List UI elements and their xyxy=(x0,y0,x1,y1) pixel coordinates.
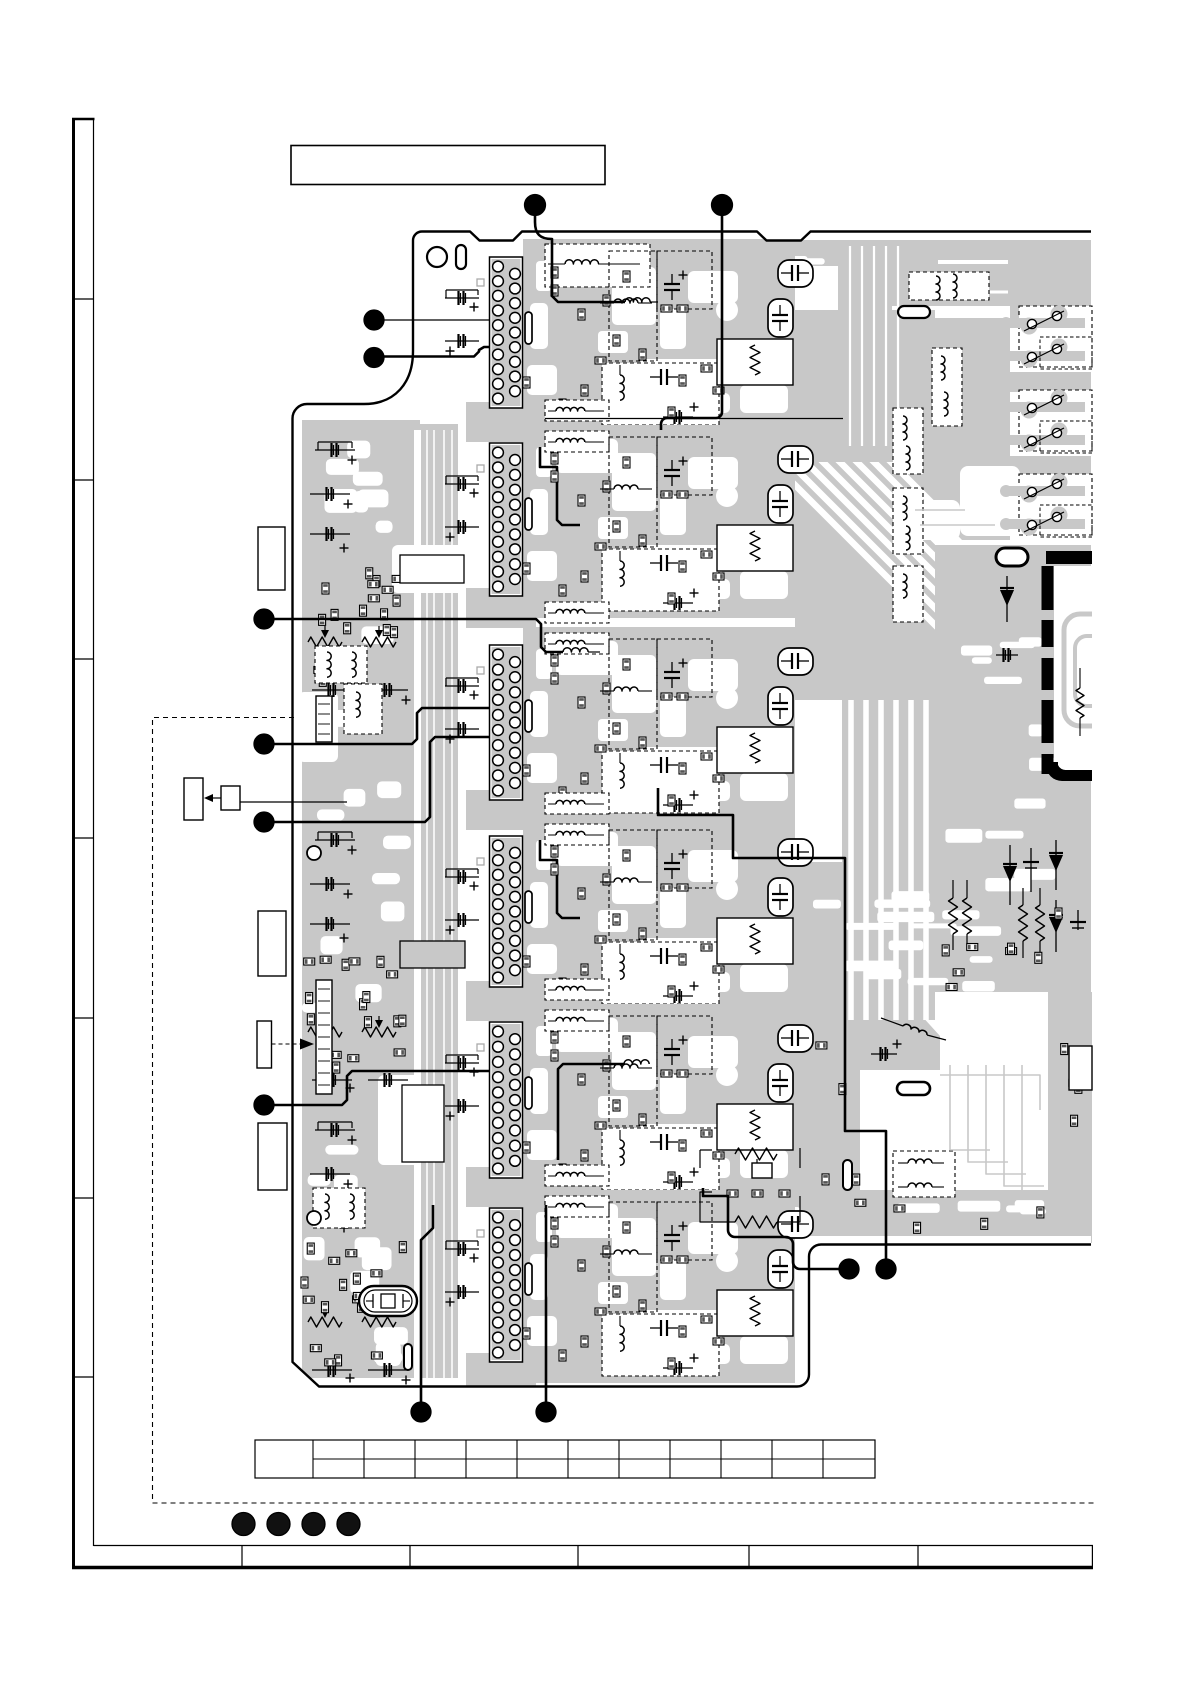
left margin tick 7 xyxy=(74,1376,94,1378)
wire from pad 11 xyxy=(421,1205,433,1403)
left strip electrolytic caps lower y1112 xyxy=(312,1369,352,1371)
capacitor C257e xyxy=(663,416,693,418)
electrolytic capacitor C257b xyxy=(768,299,793,337)
inductor filter box L1208a1 xyxy=(545,1165,609,1186)
shield box y257 xyxy=(609,251,657,361)
module clearance xyxy=(527,1204,788,1364)
inductor box L645b xyxy=(602,751,719,813)
light traces bottom-right white zone xyxy=(915,510,1062,1198)
resistor R-shield xyxy=(1076,688,1084,718)
capacitor C1208f xyxy=(445,1248,479,1250)
capacitor C1022c xyxy=(671,1039,673,1049)
slot bottom-center xyxy=(843,1160,852,1190)
diode D-left-frame xyxy=(1006,576,1008,622)
inductor box L1022b xyxy=(602,1128,719,1190)
shield box y836 b xyxy=(657,830,712,888)
routing slot xyxy=(525,1263,532,1295)
title box xyxy=(291,146,605,185)
callout pad 3 xyxy=(364,310,384,330)
connector CN2 xyxy=(490,443,523,596)
inductor L1022c xyxy=(614,1064,638,1068)
module clearance xyxy=(527,832,788,992)
bottom frame divider 6 xyxy=(1091,1545,1093,1567)
diagonal trace zone xyxy=(795,462,935,700)
header connector left lower xyxy=(316,980,332,1094)
wire from pad 5 xyxy=(273,619,563,652)
electrolytic capacitor C443b xyxy=(768,485,793,523)
capacitor C257d xyxy=(650,376,661,378)
electrolytic capacitor C1022b xyxy=(768,1064,793,1102)
copper pour module y443 xyxy=(466,425,795,628)
legend wire xyxy=(240,801,347,803)
wire hook xyxy=(540,840,580,918)
left strip electrolytic cap y1112 3 xyxy=(310,1213,350,1215)
PCB board outline xyxy=(293,232,1092,1387)
callout pad 10 xyxy=(876,1259,896,1279)
key pad 3 xyxy=(302,1513,325,1536)
wire from pad 8 xyxy=(273,1071,489,1105)
resistor R-right-2b xyxy=(1036,905,1045,941)
IC outline box lower xyxy=(402,1085,444,1162)
connector CN3 xyxy=(490,645,523,800)
capacitor C443e xyxy=(663,602,693,604)
callout dashed arrowhead xyxy=(303,712,318,723)
slot top-right xyxy=(898,306,930,318)
callout pad 2 xyxy=(712,195,733,216)
inductor L645c xyxy=(614,687,638,691)
capacitor C443d xyxy=(650,562,661,564)
electrolytic capacitor C1208b xyxy=(768,1250,793,1288)
bottom frame divider 5 xyxy=(917,1545,919,1567)
capacitor C257c xyxy=(671,274,673,284)
diode D2 xyxy=(1055,840,1057,890)
inductor box right col 2 xyxy=(893,488,923,554)
connector CN6 xyxy=(490,1208,523,1362)
capacitor C1022f xyxy=(445,1062,479,1064)
shield box y1208 b xyxy=(657,1202,712,1260)
wire from pad 10 xyxy=(658,788,886,1259)
left strip trimmer R1112a xyxy=(308,1317,342,1327)
clearance channels xyxy=(296,246,1092,1386)
chip parts bottom-center xyxy=(727,1190,790,1197)
callout pad 4 xyxy=(364,348,384,368)
left strip electrolytic cap y432 1 xyxy=(315,449,355,451)
inductor pair box right-mid xyxy=(932,348,962,426)
trace across modules xyxy=(545,418,843,420)
routing slot xyxy=(525,1077,532,1109)
callout pad 11 xyxy=(411,1402,431,1422)
shield interior traces xyxy=(1064,614,1127,726)
inductor pair box left upper xyxy=(315,646,367,683)
inductor L1208c xyxy=(614,1250,638,1254)
diode D3 xyxy=(1055,900,1057,952)
resistor network box y836 xyxy=(717,918,793,964)
fiducial square xyxy=(477,1230,484,1237)
key pad 4 xyxy=(337,1513,360,1536)
copper pour module y645 xyxy=(466,627,795,830)
bottom frame thin rule xyxy=(94,1545,1094,1547)
diode D1 xyxy=(1009,845,1011,905)
copper pour bottom right bottom strip xyxy=(860,1190,1048,1236)
inductor filter box L443a1 xyxy=(545,400,609,421)
shield box y645 b xyxy=(657,639,712,697)
resistor network box y257 xyxy=(717,339,793,385)
module chip parts xyxy=(523,846,724,997)
inductor filter box L1022a2 xyxy=(545,1010,609,1031)
left strip chip parts xyxy=(301,1242,406,1366)
slot right-bottom xyxy=(897,1082,930,1095)
capacitor C645g xyxy=(445,728,479,730)
module chip parts xyxy=(523,1032,724,1183)
module chip parts xyxy=(523,453,724,604)
key pad 2 xyxy=(267,1513,290,1536)
copper pour bottom right right col xyxy=(1048,992,1092,1243)
fiducial square xyxy=(477,667,484,674)
left strip chip parts xyxy=(314,568,403,690)
copper pour top band xyxy=(545,240,1091,320)
component outline box 2 xyxy=(258,911,286,976)
bottom frame divider 3 xyxy=(577,1545,579,1567)
copper pour module y1022 xyxy=(466,1004,795,1207)
bold oval right xyxy=(996,548,1028,566)
inductor filter box L645a2 xyxy=(545,633,609,654)
bottom frame thick rule xyxy=(72,1566,1093,1570)
resistor network box y1208 xyxy=(717,1290,793,1336)
wire from pad 7 xyxy=(273,737,489,822)
white patch below switch area xyxy=(960,466,1020,536)
fiducial square xyxy=(477,1044,484,1051)
inductor box L257b xyxy=(602,363,719,425)
electrolytic capacitor C645a xyxy=(778,648,813,675)
capacitor C1208e xyxy=(663,1367,693,1369)
left strip electrolytic cap y1112 1 xyxy=(315,1129,355,1131)
mounting hole bottom-left xyxy=(307,1211,321,1225)
capacitor C836g xyxy=(445,919,479,921)
capacitor C443f xyxy=(445,483,479,485)
callout pad 7 xyxy=(254,812,274,832)
fiducial square xyxy=(477,279,484,286)
copper pour module y257 xyxy=(466,239,795,442)
capacitor C1022g xyxy=(445,1105,479,1107)
pour hole xyxy=(716,878,738,900)
wire from pad 4 xyxy=(384,347,490,357)
switch box S1 xyxy=(1019,306,1092,367)
inductor box right col 3 xyxy=(893,566,923,622)
copper pour bus band xyxy=(420,424,458,1382)
IC outline box mid xyxy=(400,555,464,583)
capacitor C836d xyxy=(650,955,661,957)
electrolytic capacitor C1022a xyxy=(778,1025,813,1052)
inductor filter box L836a2 xyxy=(545,824,609,845)
resistor network box y1022 xyxy=(717,1104,793,1150)
bottom frame divider 4 xyxy=(748,1545,750,1567)
electrolytic capacitor C836a xyxy=(778,839,813,866)
module clearance xyxy=(527,439,788,599)
wire stub module 5 xyxy=(558,1064,624,1160)
pour hole xyxy=(716,485,738,507)
module clearance xyxy=(527,253,788,413)
fiducial square xyxy=(477,858,484,865)
copper pour bottom right top xyxy=(795,862,1091,992)
left strip electrolytic cap y1112 2 xyxy=(310,1173,350,1175)
callout pad 5 xyxy=(254,609,274,629)
legend box tall xyxy=(184,778,203,820)
switch box S2 xyxy=(1019,390,1092,451)
capacitor C1022d xyxy=(650,1141,661,1143)
electrolytic capacitor C1208a xyxy=(778,1211,813,1238)
component box right edge xyxy=(1069,1046,1092,1090)
wire hook xyxy=(540,447,580,525)
left strip electrolytic cap y432 2 xyxy=(310,493,350,495)
copper pour bottom right left col xyxy=(770,992,860,1243)
inductor box L443b xyxy=(602,549,719,611)
bottom frame divider 2 xyxy=(409,1545,411,1567)
inductor box L1208b xyxy=(602,1314,719,1376)
dashed pointer to header xyxy=(272,1043,304,1045)
wire from pad 6 xyxy=(273,708,489,744)
module chip parts xyxy=(523,655,724,806)
pour hole xyxy=(716,299,738,321)
capacitor right-mid b xyxy=(1077,910,1079,930)
routing slot xyxy=(525,312,532,344)
resistor network box y645 xyxy=(717,727,793,773)
left strip electrolytic cap y822 3 xyxy=(310,923,350,925)
bottom frame divider 1 xyxy=(241,1545,243,1567)
left margin tick 2 xyxy=(74,479,94,481)
copper pour module y836 xyxy=(466,818,795,1021)
module clearance xyxy=(527,641,788,801)
left strip trimmer R1112b xyxy=(362,1317,396,1327)
routing slot xyxy=(525,498,532,530)
chip parts right zone xyxy=(816,908,1082,1233)
callout pad 1 xyxy=(525,195,546,216)
left margin tick 3 xyxy=(74,658,94,660)
mounting hole mid-left xyxy=(307,846,321,860)
shield box y1208 xyxy=(609,1202,657,1312)
crystal X1 xyxy=(359,1286,417,1316)
capacitor C836c xyxy=(671,853,673,863)
inductor filter box L836a1 xyxy=(545,793,609,814)
transistor Q-b1 xyxy=(752,1163,772,1178)
wire from pad 1 to connector CN1 area xyxy=(535,212,625,302)
shield box y1022 b xyxy=(657,1016,712,1074)
capacitor C645f xyxy=(445,685,479,687)
page border left column xyxy=(72,118,75,1568)
capacitor C443c xyxy=(671,460,673,470)
left strip chip parts xyxy=(304,956,406,1073)
key pad 1 xyxy=(232,1513,255,1536)
component outline box 1 xyxy=(258,527,285,590)
inductor pair box left lower xyxy=(313,1188,365,1228)
resistor R-right-2 xyxy=(1019,905,1028,941)
pour hole xyxy=(716,687,738,709)
legend arrow xyxy=(208,797,221,799)
callout pad 6 xyxy=(254,734,274,754)
component outline box 3 xyxy=(257,1021,272,1068)
inductor filter box L645a1 xyxy=(545,602,609,623)
left strip electrolytic cap y822 1 xyxy=(315,839,355,841)
capacitor right-bottom b xyxy=(871,1053,897,1055)
left strip trimmer R822b xyxy=(362,1027,396,1037)
left margin tick 5 xyxy=(74,1017,94,1019)
wire from pad 9 xyxy=(703,1188,849,1269)
resistor R-right-1b xyxy=(963,898,972,934)
resistor R-right-1 xyxy=(949,898,958,934)
copper pour center-right band xyxy=(795,310,935,545)
left margin tick 1 xyxy=(74,298,94,300)
callout pad 9 xyxy=(839,1259,859,1279)
shield box y443 xyxy=(609,437,657,547)
left strip electrolytic caps lower y432 xyxy=(312,689,352,691)
connector CN5 xyxy=(490,1022,523,1178)
capacitor C645d xyxy=(650,764,661,766)
capacitor C257f xyxy=(445,297,479,299)
shield box y1022 xyxy=(609,1016,657,1126)
shield box y443 b xyxy=(657,437,712,495)
inductor filter box L1022a1 xyxy=(545,979,609,1000)
pour hole xyxy=(716,1250,738,1272)
shield box y645 xyxy=(609,639,657,749)
IC outline box mid2 xyxy=(400,941,465,968)
copper pour left strip xyxy=(298,420,420,1382)
wire from pad 12 xyxy=(545,1205,548,1403)
inductor pair box top-right xyxy=(909,272,989,300)
copper pour module y1208 xyxy=(466,1190,795,1393)
capacitor C1208d xyxy=(650,1327,661,1329)
capacitor right-top a xyxy=(1030,848,1032,892)
capacitor C836f xyxy=(445,876,479,878)
capacitor C645c xyxy=(671,662,673,672)
inductor L443c xyxy=(614,485,638,489)
shield frame heavy xyxy=(1046,551,1092,564)
callout pad 12 xyxy=(536,1402,556,1422)
callout dashed boundary xyxy=(153,718,1096,1504)
electrolytic capacitor C443a xyxy=(778,446,813,473)
legend box square xyxy=(221,786,240,810)
inductor L836c xyxy=(614,878,638,882)
routing slot xyxy=(525,891,532,923)
component outline box 4 xyxy=(258,1123,287,1190)
resistor bracket R-b2 xyxy=(735,1216,777,1228)
inductor filter box L257a xyxy=(545,244,650,287)
module chip parts xyxy=(523,267,724,418)
capacitor C257g xyxy=(445,340,479,342)
wire from pad 2 xyxy=(661,212,722,430)
copper pour right upper xyxy=(935,318,1091,540)
connector CN1 xyxy=(490,257,523,408)
electrolytic capacitor C836b xyxy=(768,878,793,916)
module chip parts xyxy=(523,1218,724,1369)
capacitor C836e xyxy=(663,995,693,997)
left strip electrolytic cap y822 2 xyxy=(310,883,350,885)
vertical trace bundle right xyxy=(842,700,935,1020)
pour hole xyxy=(716,1064,738,1086)
mounting hole top-left xyxy=(427,247,447,267)
routing slot xyxy=(525,700,532,732)
left strip trimmer R432a xyxy=(308,637,342,647)
left margin tick 6 xyxy=(74,1197,94,1199)
electrolytic capacitor C645b xyxy=(768,687,793,725)
wire from pad 3 xyxy=(384,319,489,321)
resistor bracket R-b1 xyxy=(735,1148,777,1160)
revision table xyxy=(255,1440,875,1478)
callout pad 8 xyxy=(254,1095,274,1115)
left margin tick 4 xyxy=(74,837,94,839)
inductor box left single xyxy=(344,684,382,734)
capacitor C1208g xyxy=(445,1291,479,1293)
resistor small left-frame xyxy=(996,654,1018,656)
header connector left upper xyxy=(316,696,332,742)
shield box y836 xyxy=(609,830,657,940)
capacitor C1208c xyxy=(671,1225,673,1235)
capacitor C1022e xyxy=(663,1181,693,1183)
inductor L257c xyxy=(614,299,638,303)
left strip trimmer R822a xyxy=(308,1027,342,1037)
fiducial square xyxy=(477,465,484,472)
switch box S3 xyxy=(1019,474,1092,535)
shield box y257 b xyxy=(657,251,712,309)
inductor box right col 1 xyxy=(893,408,923,474)
left strip trimmer R432b xyxy=(362,637,396,647)
inductor filter box L1208a2 xyxy=(545,1196,609,1217)
inductor filter box L443a2 xyxy=(545,431,609,452)
capacitor C645e xyxy=(663,804,693,806)
left strip electrolytic cap y432 3 xyxy=(310,533,350,535)
module clearance xyxy=(527,1018,788,1178)
inductor slanted L-br xyxy=(881,1018,903,1026)
capacitor C443g xyxy=(445,526,479,528)
left strip electrolytic caps lower y822 xyxy=(312,1079,352,1081)
inductor box L836b xyxy=(602,942,719,1004)
electrolytic capacitor C257a xyxy=(778,260,813,287)
inductor pair box bottom-right xyxy=(893,1151,955,1197)
slot bottom-left xyxy=(404,1344,412,1370)
connector CN4 xyxy=(490,836,523,987)
slot top-left xyxy=(456,245,466,269)
resistor network box y443 xyxy=(717,525,793,571)
copper pour right large xyxy=(900,545,1091,862)
